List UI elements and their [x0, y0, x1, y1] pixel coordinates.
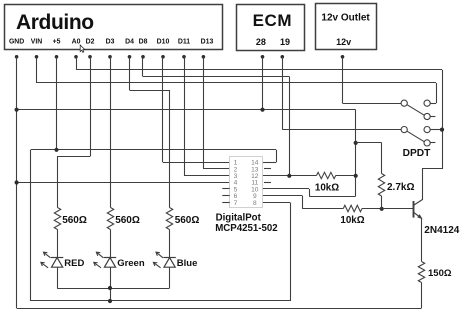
svg-text:VIN: VIN — [31, 39, 43, 46]
transistor label — [424, 225, 459, 236]
wire A0 horizontal — [76, 69, 442, 71]
wire Green led top lead — [110, 230, 112, 258]
Arduino board box — [5, 5, 223, 50]
wire Blue column upper — [169, 90, 171, 208]
wire VIN horizontal — [37, 82, 437, 84]
wire pin8 drop to +5 rail — [290, 203, 292, 302]
wire D8 horizontal — [143, 76, 289, 78]
svg-text:560Ω: 560Ω — [62, 215, 87, 226]
wire emitter rail riser — [421, 283, 423, 309]
wire D4 across — [130, 90, 170, 92]
ECM pin labels — [256, 37, 290, 47]
DPDT label — [403, 148, 432, 159]
chip left stubs pins 5-7 — [222, 189, 229, 203]
svg-text:A0: A0 — [72, 39, 81, 46]
transistor Q1 2N4124 — [413, 200, 422, 220]
wire +5 to chip pin14 drop — [276, 150, 278, 163]
resistor 10kΩ lower — [340, 205, 364, 226]
wire D8 drop to pin12 node — [289, 77, 291, 176]
wire GND horizontal to chip area — [17, 109, 356, 111]
chip label — [215, 212, 277, 233]
Arduino pin labels — [9, 39, 214, 46]
resistor 150Ω — [418, 262, 452, 283]
wire base node to transistor — [382, 208, 414, 210]
wire +5 bottom rail — [31, 300, 290, 302]
svg-text:150Ω: 150Ω — [428, 268, 452, 279]
wire D8 down — [142, 57, 144, 77]
svg-text:+5: +5 — [53, 39, 61, 46]
junction ECM28 on GND line — [260, 108, 264, 112]
wire D2 left — [57, 156, 90, 158]
wire D10 down — [162, 57, 164, 163]
wire LED cathode bus — [57, 288, 170, 290]
ECM pin terminals — [261, 55, 284, 59]
wire Blue led top lead — [169, 230, 171, 258]
wire emitter down — [421, 219, 423, 262]
svg-text:560Ω: 560Ω — [175, 215, 200, 226]
resistor 560Ω green — [107, 208, 140, 230]
wire chip pin12 row — [263, 175, 317, 177]
12v Outlet pin label — [336, 37, 351, 47]
wire D3 Green column upper — [110, 57, 112, 208]
12v Outlet box — [316, 4, 377, 50]
wire chip pin10 row — [263, 188, 310, 190]
wire ECM19 down — [282, 57, 284, 130]
LED Green — [94, 252, 145, 269]
svg-text:D10: D10 — [157, 39, 170, 46]
wire D13 to chip pin2 — [203, 168, 229, 170]
svg-text:7: 7 — [234, 200, 238, 207]
svg-text:D8: D8 — [139, 39, 148, 46]
resistor 2.7kΩ — [378, 174, 414, 197]
svg-text:2N4124: 2N4124 — [424, 225, 459, 236]
svg-text:D13: D13 — [201, 39, 214, 46]
wire RED led top lead — [57, 230, 59, 258]
ECM box — [237, 5, 305, 51]
wire D10 to chip pin1 — [163, 162, 230, 164]
wire 10k lower to base node — [362, 208, 382, 210]
wire A0 right drop — [442, 70, 444, 169]
svg-text:Blue: Blue — [177, 258, 198, 269]
wire D4 down — [129, 57, 131, 90]
svg-text:12v: 12v — [336, 37, 351, 47]
wire RED column upper — [57, 156, 59, 207]
wire 2.7k top lead — [381, 143, 383, 174]
wire D2 down — [90, 57, 92, 157]
svg-text:19: 19 — [280, 37, 290, 47]
svg-text:D11: D11 — [178, 39, 190, 46]
wire +5 horizontal — [31, 149, 276, 151]
wire D11 down — [184, 57, 186, 176]
svg-text:RED: RED — [64, 258, 84, 269]
svg-text:10kΩ: 10kΩ — [315, 182, 339, 193]
resistor 560Ω blue — [166, 208, 199, 230]
svg-text:D2: D2 — [86, 39, 95, 46]
switch DPDT — [401, 100, 442, 146]
resistor 10kΩ upper — [315, 172, 339, 193]
wire RED column lower — [57, 267, 59, 288]
wire VIN wrap down — [436, 83, 438, 103]
junction GND tee — [15, 108, 19, 112]
chip right stubs pins 13 11 — [264, 169, 271, 183]
wire collector drop — [422, 169, 424, 200]
wire GND to chip pin4 — [17, 182, 230, 184]
wire A0 down — [76, 57, 78, 70]
junction GND pin4 tee — [15, 180, 19, 184]
wire +5 down — [56, 57, 58, 150]
junction 10k GND pin10 node — [354, 174, 358, 178]
svg-text:ECM: ECM — [253, 11, 293, 30]
svg-text:GND: GND — [9, 39, 24, 46]
wire ECM28 down — [262, 57, 264, 110]
wire +5 left branch down — [30, 150, 32, 301]
junction +5 tee — [54, 148, 58, 152]
wire Green column lower — [110, 267, 112, 301]
junction Green bus tee — [108, 286, 112, 290]
wire pin9 to 10k lower — [302, 208, 343, 210]
wire pin10 drop — [309, 189, 311, 196]
svg-text:D3: D3 — [106, 39, 115, 46]
svg-text:10kΩ: 10kΩ — [340, 215, 364, 226]
junction Green rail tee — [108, 299, 112, 303]
LED Blue — [153, 252, 197, 269]
wire Blue column lower — [169, 267, 171, 288]
svg-text:DigitalPot: DigitalPot — [216, 212, 262, 223]
junction pole2 throwA on A0 drop — [440, 128, 444, 132]
wire 10k upper right lead — [336, 175, 356, 177]
wire collector link — [422, 168, 442, 170]
wire D13 down — [203, 57, 205, 169]
svg-text:560Ω: 560Ω — [115, 215, 140, 226]
LED RED — [41, 252, 85, 269]
svg-text:MCP4251-502: MCP4251-502 — [215, 223, 277, 234]
IC U1 DigitalPot MCP4251-502 body — [230, 157, 263, 208]
svg-text:12v Outlet: 12v Outlet — [321, 12, 370, 23]
wire GND drop right — [355, 110, 357, 196]
svg-text:28: 28 — [256, 37, 266, 47]
wire 2.7k bottom lead — [381, 196, 383, 209]
wire VIN down — [36, 57, 38, 83]
svg-text:D4: D4 — [125, 39, 134, 46]
junction pin12 D8 node — [287, 174, 291, 178]
svg-text:2.7kΩ: 2.7kΩ — [387, 182, 414, 193]
wire chip pin8 row — [263, 202, 291, 204]
wire chip pin9 row — [263, 195, 303, 197]
wire 12v outlet down — [342, 57, 344, 103]
resistor 560Ω red — [54, 208, 87, 230]
wire pin9 drop — [302, 196, 304, 209]
wire link to 2.7k top — [356, 142, 382, 144]
wire D11 to chip pin3 — [184, 175, 230, 177]
wire 12v outlet to DPDT pole1 common — [343, 103, 402, 105]
mouse cursor — [80, 45, 85, 52]
junction 2.7k link tee — [354, 141, 358, 145]
wire GND vertical rail — [16, 57, 18, 308]
svg-text:DPDT: DPDT — [403, 148, 432, 159]
wire pin10 link — [309, 196, 356, 198]
12v Outlet pin terminal — [341, 55, 345, 59]
wire ECM19 to DPDT pole2 common — [282, 129, 401, 131]
wire chip pin14 — [263, 162, 277, 164]
junction base node — [380, 207, 384, 211]
svg-text:Arduino: Arduino — [16, 11, 94, 34]
wire VIN wrap to pole1 throwA — [430, 103, 436, 105]
wire GND bottom rail — [17, 308, 422, 310]
svg-text:Green: Green — [117, 258, 145, 269]
svg-text:8: 8 — [253, 200, 257, 207]
Arduino pin terminals — [15, 55, 205, 59]
